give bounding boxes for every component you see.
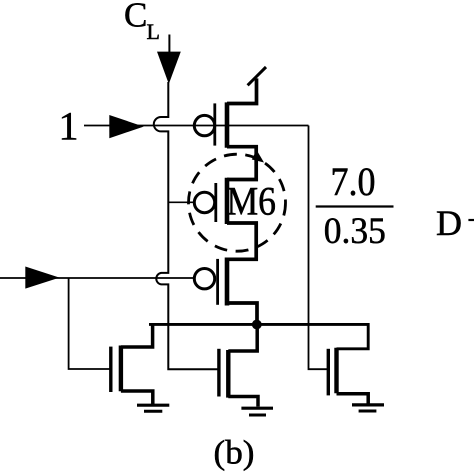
svg-text:(b): (b) bbox=[214, 435, 255, 472]
N2 gate bar bbox=[217, 349, 220, 397]
svg-text:1: 1 bbox=[59, 104, 79, 149]
ground G1 bbox=[137, 404, 169, 407]
M6 channel bar bbox=[225, 178, 230, 224]
ground G2 bbox=[241, 407, 273, 410]
N3 gate bar bbox=[327, 349, 330, 396]
svg-text:L: L bbox=[147, 19, 160, 44]
wire stub above C_L arrow bbox=[168, 35, 170, 54]
wire: input 1 gate line to right vertical bbox=[84, 125, 309, 127]
N3 channel bar bbox=[334, 348, 338, 394]
wire: left vertical net (C_L node) with two hops bbox=[154, 82, 219, 369]
wire: lower input line bbox=[0, 277, 194, 279]
N1 gate bar bbox=[109, 347, 112, 392]
C_L input arrow (down) bbox=[157, 52, 181, 84]
wire stub right of D bbox=[468, 219, 474, 221]
P1 gate bubble bbox=[194, 115, 214, 135]
N2 source lead bbox=[228, 397, 258, 407]
wire: M6 gate stub from left net bbox=[168, 201, 194, 203]
wire: output bus bbox=[149, 324, 368, 348]
input 1 arrow bbox=[109, 115, 143, 138]
P1 channel bar bbox=[225, 102, 230, 147]
junction dot bbox=[252, 320, 262, 330]
N1 drain lead to bus bbox=[121, 324, 153, 347]
svg-text:0.35: 0.35 bbox=[324, 211, 386, 252]
dashed highlight circle around M6 bbox=[189, 154, 286, 251]
svg-text:M6: M6 bbox=[227, 179, 277, 224]
svg-text:C: C bbox=[124, 0, 147, 35]
P3 gate bar bbox=[216, 259, 219, 305]
N2 channel bar bbox=[226, 350, 230, 398]
supply slash (top) bbox=[248, 67, 266, 85]
wire: P1 drain to M6 source bbox=[227, 147, 256, 180]
wire: right vertical net to NMOS gate bbox=[309, 126, 329, 370]
N3 source lead bbox=[337, 394, 369, 405]
svg-text:D: D bbox=[436, 203, 462, 243]
source arrow on M6 (up) bbox=[252, 150, 264, 163]
P3 channel bar bbox=[225, 258, 230, 306]
N1 source lead bbox=[121, 391, 153, 404]
fraction bar bbox=[316, 205, 394, 207]
M6 gate bar bbox=[214, 183, 217, 222]
P1 gate bar bbox=[213, 103, 216, 145]
P1 source lead (up) bbox=[227, 78, 257, 103]
lower input arrow bbox=[25, 267, 59, 289]
ground G3 bbox=[352, 403, 384, 406]
wire: P3 drain down to output bus bbox=[227, 303, 257, 324]
N1 channel bar bbox=[119, 346, 123, 392]
N2 drain lead to bus bbox=[228, 329, 257, 351]
svg-text:7.0: 7.0 bbox=[331, 159, 376, 204]
M6 gate bubble bbox=[194, 192, 214, 212]
P3 gate bubble bbox=[194, 269, 214, 289]
wire: branch from lower input down to left NMOS gate bbox=[69, 278, 111, 369]
wire: M6 drain to P3 source bbox=[227, 223, 256, 259]
